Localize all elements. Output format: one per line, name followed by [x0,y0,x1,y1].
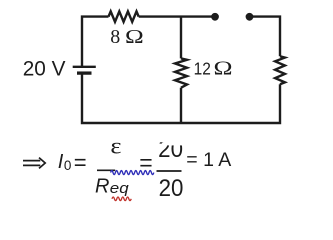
svg-text:=: = [139,150,152,176]
resistor R2 12ohm vertical zigzag [175,58,187,87]
svg-text:=: = [74,150,87,175]
wire: middle branch from top wire down to 12ohm [180,17,182,59]
battery B1 long plate [73,66,96,68]
node switch right dot [246,13,254,21]
svg-text:eq: eq [110,181,129,197]
fraction bar 2 [157,170,182,172]
wire: right branch bottom + bottom wire + left vertical up to battery [82,74,280,124]
svg-text:R: R [95,176,109,198]
white clip strip over numerator top [152,128,186,142]
svg-text:Ω: Ω [125,25,144,47]
svg-text:12: 12 [194,59,211,79]
svg-text:I: I [58,151,64,173]
implies arrow [23,158,45,169]
svg-text:0: 0 [64,158,72,173]
svg-text:= 1 A: = 1 A [186,149,231,171]
svg-text:20 V: 20 V [23,57,66,80]
red squiggle under eq [112,197,131,201]
wire: switch right dot to right branch corner down [250,17,281,57]
wire: left vertical top + top wire to 8ohm resistor [82,17,109,67]
svg-text:Ω: Ω [214,57,233,79]
wire: 12ohm to bottom wire [180,88,182,123]
resistor R3 right vertical zigzag [275,56,285,84]
node switch left dot [211,13,219,21]
blue squiggle under fraction bar [111,171,154,175]
fraction bar 1 [97,169,115,171]
svg-text:8: 8 [110,26,120,48]
wire: resistor to switch left dot [139,15,215,17]
svg-text:ε: ε [110,134,121,159]
battery B1 short plate [77,71,92,74]
svg-text:20: 20 [159,174,184,201]
resistor R1 8ohm zigzag [109,11,139,21]
